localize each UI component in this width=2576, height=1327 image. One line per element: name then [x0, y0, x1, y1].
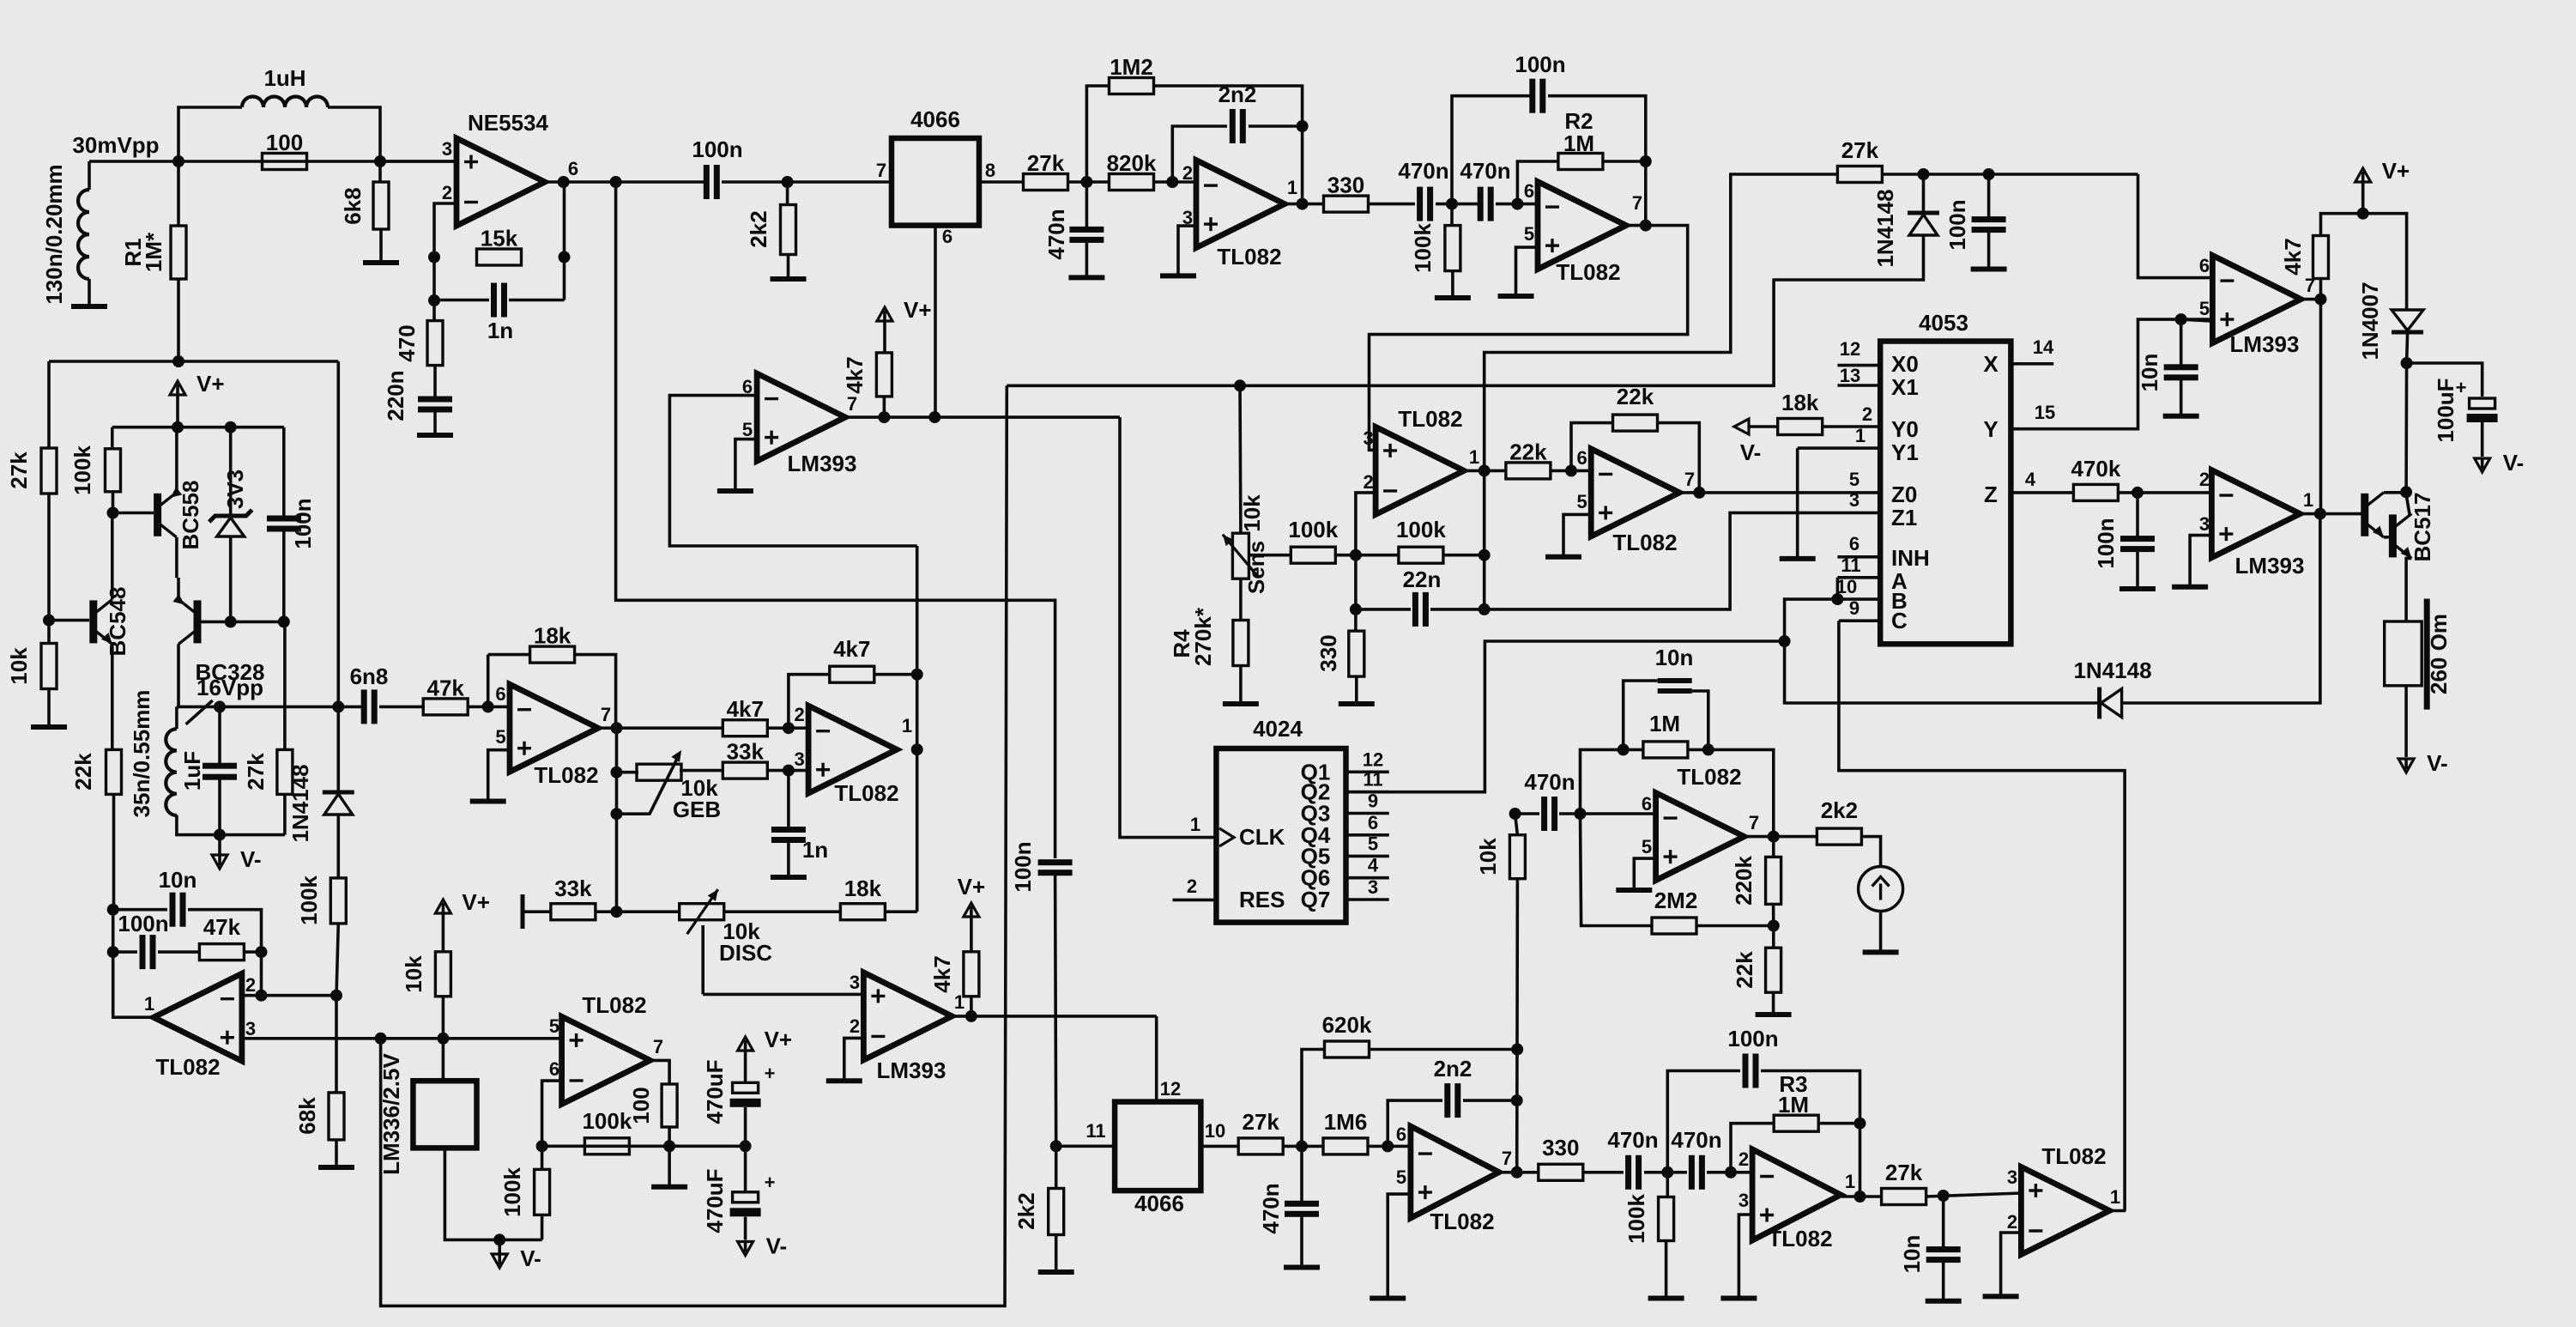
node 10n c	[1938, 1190, 1950, 1202]
wire 2k2 b2 bottom	[1055, 1234, 1058, 1270]
wire 4k7 lm1 bottom	[883, 397, 886, 417]
svg-text:1n: 1n	[487, 318, 513, 343]
svg-text:LM393: LM393	[2235, 553, 2305, 579]
svg-text:2n2: 2n2	[1218, 82, 1257, 107]
wire route bottom	[1055, 874, 1116, 1146]
svg-text:100n: 100n	[1944, 199, 1970, 250]
wire det mid down	[1354, 555, 1358, 632]
svg-text:TL082: TL082	[1612, 530, 1677, 555]
node tl2 out	[1640, 220, 1652, 232]
wire search coil top	[88, 161, 91, 190]
ground 220n	[417, 433, 453, 438]
svg-text:100n: 100n	[1727, 1026, 1778, 1051]
svg-text:470n: 470n	[1398, 158, 1448, 184]
svg-text:270k*: 270k*	[1190, 607, 1216, 666]
svg-text:220k: 220k	[1731, 856, 1757, 906]
wire tl2 out loop	[1370, 226, 1688, 451]
svg-text:+: +	[765, 1172, 776, 1193]
node 470 top	[428, 294, 440, 306]
wire tl7 plus	[1634, 858, 1655, 888]
svg-text:7: 7	[847, 393, 857, 415]
wire tl11 out	[1841, 1195, 1882, 1198]
power V- cap	[2475, 450, 2525, 476]
diode 1N4148 det	[1908, 213, 1939, 235]
wire bc517 c1	[2384, 491, 2406, 494]
wire lm1 plus	[735, 439, 757, 489]
wire tl4 out vert	[916, 546, 919, 912]
node 1M right	[1702, 743, 1714, 755]
wire 4k7 to tl4	[767, 726, 808, 730]
wire V+ to diode	[2363, 214, 2407, 309]
wire 100n osc bottom	[282, 529, 286, 621]
wire 100n osc top	[282, 427, 286, 518]
node mfb in	[1296, 1140, 1308, 1152]
svg-text:27k: 27k	[1027, 150, 1065, 176]
svg-text:27k: 27k	[6, 451, 32, 489]
node vref gnd	[493, 1233, 505, 1245]
node 620k join	[1511, 1044, 1523, 1056]
resistor 820k	[1107, 150, 1157, 191]
wire 100uF bottom	[2481, 422, 2484, 457]
svg-text:Z1: Z1	[1891, 505, 1917, 530]
svg-text:INH: INH	[1891, 545, 1930, 571]
resistor 18k fb	[530, 623, 575, 663]
wire tl9 inv	[542, 1081, 562, 1146]
wire 18k to fb	[885, 910, 917, 913]
wire 2n2b left	[1388, 1100, 1442, 1146]
svg-text:V+: V+	[904, 297, 932, 323]
svg-text:5: 5	[1396, 1166, 1406, 1188]
transistor BC548	[89, 587, 130, 657]
wire node to disc	[617, 910, 680, 913]
svg-text:22k: 22k	[1617, 384, 1654, 409]
ground tl12 inv	[1983, 1294, 2019, 1299]
svg-text:3: 3	[2007, 1166, 2017, 1188]
wire 2k2 to isrc	[1861, 837, 1880, 867]
node 220k bot	[1768, 920, 1780, 932]
svg-text:4066: 4066	[1134, 1191, 1184, 1216]
svg-text:5: 5	[1642, 836, 1652, 857]
svg-text:V-: V-	[2503, 450, 2525, 476]
svg-text:15: 15	[2035, 402, 2055, 423]
svg-text:10k: 10k	[1475, 838, 1501, 876]
node 4k7fb out	[911, 669, 923, 681]
svg-text:12: 12	[1840, 338, 1860, 360]
node tl3 inv	[482, 700, 494, 712]
wire 10n c bottom	[1942, 1259, 1945, 1300]
svg-text:3: 3	[442, 138, 452, 160]
wire det vert	[1483, 470, 1486, 609]
svg-text:470k: 470k	[2071, 456, 2120, 482]
capacitor 22n	[1412, 592, 1429, 627]
wire 18k fb right	[575, 655, 616, 729]
wire 27k tank top	[283, 621, 287, 749]
op-amp TL082 l	[2007, 1143, 2120, 1255]
wire BC558 collector	[175, 537, 178, 578]
wire 100k hp bottom	[1451, 271, 1454, 296]
wire BC558 emitter	[175, 427, 178, 493]
svg-text:7: 7	[1632, 192, 1642, 214]
wire tl9 out	[650, 1060, 669, 1084]
capacitor 470n v	[1285, 1201, 1319, 1217]
svg-text:2: 2	[1182, 162, 1193, 184]
svg-text:47k: 47k	[427, 675, 465, 700]
resistor 4k7 out	[2313, 236, 2329, 279]
wire 22n right	[1430, 608, 1485, 611]
ground tl11 plus	[1720, 1296, 1757, 1301]
resistor 18k y0	[1778, 390, 1823, 435]
svg-text:4k7: 4k7	[727, 696, 764, 722]
resistor 33k sig	[723, 739, 767, 779]
resistor 470	[427, 321, 443, 366]
node AB	[1831, 593, 1843, 605]
wire 22k fb right	[1658, 423, 1700, 493]
capacitor 6n8	[361, 689, 378, 724]
wire 22k b bottom	[1772, 992, 1775, 1013]
node lm1 4066	[928, 411, 940, 423]
svg-text:35n/0.55mm: 35n/0.55mm	[129, 690, 154, 818]
wire 2n2a left	[1172, 126, 1227, 182]
svg-text:1: 1	[144, 993, 154, 1015]
node tl11 out	[1854, 1191, 1866, 1203]
resistor 22k a	[1506, 439, 1551, 479]
wire 10n left	[1624, 681, 1658, 749]
wire 2k2 b2 top	[1055, 1146, 1058, 1188]
comparator LM393 b	[2199, 255, 2315, 357]
wire 100k hp top	[1450, 204, 1454, 226]
wire A to B	[1836, 578, 1840, 599]
wire diode to 100k	[336, 815, 340, 878]
svg-text:Y0: Y0	[1891, 416, 1919, 442]
wire 100k ref up	[541, 1215, 544, 1240]
wire rail to 100k	[111, 427, 114, 449]
pointer 16Vpp	[186, 700, 213, 724]
wire Q2 route	[1346, 641, 1785, 792]
svg-text:Q7: Q7	[1301, 887, 1331, 912]
svg-text:100k: 100k	[1410, 223, 1436, 273]
node vref a	[375, 1033, 387, 1045]
wire 68k bottom	[335, 1140, 338, 1166]
resistor 47k fb	[199, 914, 244, 960]
wire NE5534 output	[545, 180, 706, 184]
wire 470nb1 out	[1644, 1171, 1687, 1174]
node tank diode	[332, 700, 344, 712]
svg-text:5: 5	[1368, 833, 1378, 854]
svg-text:620k: 620k	[1322, 1012, 1372, 1038]
wire 470ns2 out	[1496, 203, 1538, 206]
wire 100n to 2k2	[722, 180, 892, 184]
capacitor 100n fb2	[140, 935, 156, 969]
svg-text:27k: 27k	[1885, 1160, 1923, 1185]
node tl9 inv	[536, 1140, 548, 1152]
svg-text:100n: 100n	[1515, 52, 1565, 77]
node tl7 inv	[1575, 808, 1587, 820]
wire 220k top	[1772, 837, 1775, 857]
wire 100k det down	[336, 924, 338, 997]
resistor 1M int	[1643, 742, 1688, 758]
resistor 27k c	[1238, 1109, 1283, 1154]
svg-text:15k: 15k	[481, 226, 518, 251]
wire 820k out	[1154, 180, 1196, 184]
svg-text:4: 4	[2025, 469, 2036, 490]
svg-text:Y1: Y1	[1891, 439, 1919, 465]
node NE5534 out branch	[610, 176, 622, 188]
ground lm2 inv	[826, 1078, 862, 1083]
ground R4	[1223, 701, 1259, 706]
wire diode top lead	[1922, 174, 1926, 211]
wire tl1 plus	[1178, 226, 1196, 274]
node tl4 nin	[783, 765, 795, 777]
capacitor 1n det	[771, 827, 806, 843]
svg-text:Z: Z	[1984, 482, 1998, 507]
ground 68k	[318, 1165, 354, 1170]
node tank bottom	[214, 829, 226, 841]
wire tl8 plus ext	[242, 1037, 562, 1040]
inductor L1 1uH	[242, 97, 328, 108]
svg-text:6: 6	[1368, 812, 1378, 833]
wire 100n b right	[1761, 1071, 1860, 1124]
svg-text:1: 1	[1855, 425, 1865, 446]
wire lm4 out	[2299, 512, 2361, 516]
wire tl5 out	[1464, 470, 1506, 473]
svg-text:6: 6	[942, 226, 952, 247]
svg-text:LM393: LM393	[877, 1057, 946, 1083]
node geb wiper top	[611, 767, 623, 779]
svg-text:8: 8	[985, 160, 995, 181]
ground 100n z	[2119, 586, 2156, 591]
wire tl8 inv	[242, 994, 336, 997]
ground 100k hp	[1435, 295, 1471, 300]
svg-text:1M6: 1M6	[1324, 1109, 1368, 1135]
capacitor 470n s1	[1417, 187, 1433, 221]
node tl4 inv	[783, 722, 795, 734]
svg-text:470n: 470n	[1524, 769, 1575, 795]
wire lm336 bottom	[444, 1148, 541, 1239]
resistor 10k osc	[41, 644, 57, 689]
node tl11 inv	[1725, 1166, 1737, 1179]
binary counter 4024	[1216, 716, 1345, 923]
wire osc top rail	[49, 360, 338, 363]
wire 22k down	[112, 794, 116, 910]
svg-text:6: 6	[1524, 180, 1534, 202]
resistor 100k hp	[1445, 226, 1460, 271]
op-amp TL082 e	[1363, 406, 1479, 514]
svg-text:10n: 10n	[1899, 1235, 1925, 1274]
ground tl10 plus	[1370, 1296, 1406, 1301]
svg-text:2: 2	[1363, 471, 1373, 493]
node lm1 4k7	[878, 411, 890, 423]
capacitor 2n2 a	[1230, 109, 1246, 143]
wire 2n2a right	[1249, 124, 1303, 128]
ground 470n flt	[1068, 275, 1104, 280]
svg-text:12: 12	[1160, 1078, 1181, 1100]
wire 1uF bottom	[218, 777, 221, 835]
node 100n det top	[1983, 168, 1995, 180]
capacitor 1n NE5534	[491, 283, 507, 318]
svg-text:11: 11	[1841, 554, 1860, 576]
svg-text:10k: 10k	[401, 955, 426, 993]
resistor 10k ref	[435, 952, 450, 997]
wire 100n det top lead	[1987, 174, 1991, 219]
svg-text:30mVpp: 30mVpp	[72, 132, 159, 158]
svg-text:10n: 10n	[1655, 645, 1694, 670]
node 470k out	[2132, 487, 2144, 499]
zener diode 3V3	[209, 510, 252, 536]
resistor 2k2 b	[1817, 797, 1861, 845]
power V- 470u	[738, 1233, 788, 1259]
wire tl8 out	[113, 906, 154, 1017]
node V+ out	[2357, 208, 2369, 220]
wire 1n left	[434, 299, 489, 302]
svg-text:470n: 470n	[1671, 1127, 1721, 1153]
node 10n b	[2175, 313, 2187, 325]
svg-text:47k: 47k	[203, 914, 241, 940]
svg-text:11: 11	[1363, 769, 1382, 791]
svg-text:RES: RES	[1239, 887, 1285, 912]
wire sens wiper out	[1249, 554, 1291, 557]
wire 1n4007 out	[2407, 334, 2408, 363]
svg-text:3: 3	[2199, 513, 2210, 535]
ground isrc	[1863, 949, 1899, 954]
wire 47k fb right	[244, 950, 261, 954]
wire coil top	[175, 706, 178, 729]
svg-text:1n: 1n	[802, 837, 828, 863]
pin 14 4053	[2011, 362, 2053, 366]
wire 100k h chain	[542, 1145, 746, 1148]
node diode top	[1918, 168, 1930, 180]
svg-text:100n: 100n	[692, 136, 742, 162]
svg-text:1N4148: 1N4148	[287, 764, 313, 842]
wire zener bottom	[229, 536, 233, 621]
ground 100	[651, 1185, 687, 1190]
wire 100k b bottom	[1665, 1241, 1668, 1297]
node NE5534 fb tap	[558, 176, 570, 188]
svg-text:TL082: TL082	[2041, 1143, 2106, 1169]
svg-text:1: 1	[1469, 446, 1479, 468]
wire 33k to node	[596, 910, 617, 913]
node vref b	[437, 1033, 449, 1045]
clock marker 4024	[1219, 828, 1234, 846]
resistor 10k int	[1509, 835, 1525, 879]
svg-text:33k: 33k	[554, 876, 592, 901]
op-amp TL082 i	[549, 992, 663, 1104]
svg-text:4066: 4066	[910, 106, 960, 132]
pin 6 4024	[1346, 833, 1389, 837]
wire 470k out	[2118, 491, 2211, 494]
wire 100n z top	[2136, 493, 2139, 537]
pin 3 4024	[1346, 898, 1389, 901]
svg-text:33k: 33k	[727, 739, 765, 765]
wire 470n flt top	[1085, 182, 1089, 228]
wire 27k c out	[1283, 1145, 1323, 1148]
capacitor 470n int	[1541, 797, 1557, 831]
svg-text:100k: 100k	[582, 1108, 632, 1134]
wire 68k top	[335, 996, 338, 1093]
svg-text:470uF: 470uF	[702, 1059, 728, 1124]
wire tl5 inv	[1356, 493, 1376, 555]
svg-text:V+: V+	[958, 874, 986, 900]
svg-text:6: 6	[495, 683, 505, 705]
svg-text:100uF: 100uF	[2433, 378, 2458, 442]
op-amp TL082 f	[1576, 447, 1695, 555]
svg-text:3: 3	[245, 1018, 256, 1039]
wire to lm393a inv	[2138, 174, 2213, 278]
svg-text:V+: V+	[197, 371, 225, 397]
pin 10 4053	[1837, 597, 1880, 601]
svg-text:1uH: 1uH	[263, 65, 305, 91]
svg-text:LM393: LM393	[2230, 331, 2300, 357]
wire tl6 out	[1679, 491, 1880, 494]
svg-text:100: 100	[266, 130, 303, 155]
capacitor 100n b	[1743, 1054, 1759, 1088]
svg-text:1N4148: 1N4148	[2073, 657, 2151, 683]
svg-text:100n: 100n	[118, 911, 168, 936]
wire C route	[1839, 621, 2125, 1210]
svg-text:Y: Y	[1983, 416, 1998, 442]
svg-text:Z0: Z0	[1891, 482, 1917, 507]
capacitor 470uF a	[702, 1059, 775, 1124]
capacitor 100n route	[1038, 859, 1073, 876]
svg-text:7: 7	[1684, 469, 1695, 490]
wire 4k7 top	[2321, 214, 2363, 236]
wire 470n flt bottom	[1085, 241, 1089, 276]
capacitor 220n	[418, 397, 452, 413]
wire coil bottom	[177, 815, 285, 835]
wire lm2 plus	[703, 993, 863, 997]
svg-text:1N4007: 1N4007	[2357, 282, 2383, 360]
ground 1n det	[771, 875, 807, 880]
svg-text:470n: 470n	[1607, 1127, 1658, 1153]
capacitor 470uF b	[702, 1168, 775, 1233]
resistor 100k det	[330, 878, 346, 924]
svg-text:6: 6	[1576, 447, 1587, 469]
ground 22k b	[1756, 1012, 1792, 1017]
resistor 100k s1	[1288, 517, 1338, 563]
wire sens top	[1238, 385, 1243, 533]
node lm2 out	[965, 1010, 977, 1022]
pin 9 4053	[1839, 619, 1880, 622]
capacitor 10n b	[2164, 364, 2198, 380]
wire 10n fb right	[188, 910, 262, 997]
svg-text:10: 10	[1205, 1120, 1225, 1142]
node geb wiper bot	[611, 808, 623, 820]
svg-text:7: 7	[876, 160, 886, 181]
svg-text:10n: 10n	[2137, 354, 2162, 392]
wire v- to 18k	[1749, 425, 1778, 428]
analog mux 4053	[1880, 310, 2011, 644]
ground 100k b	[1648, 1296, 1684, 1301]
svg-text:100k: 100k	[70, 445, 95, 495]
wire RES stub	[1173, 899, 1217, 902]
power V+ lm1	[877, 297, 932, 353]
svg-text:18k: 18k	[844, 876, 882, 901]
node bc517 c	[2400, 486, 2412, 498]
svg-text:10n: 10n	[159, 867, 197, 893]
resistor 18k disc	[840, 876, 885, 920]
svg-text:V-: V-	[2427, 750, 2448, 776]
svg-text:1uF: 1uF	[179, 751, 205, 791]
node tl7 out	[1768, 831, 1780, 843]
svg-text:6: 6	[2199, 255, 2210, 276]
op-amp NE5534	[442, 110, 578, 226]
resistor 27k tank	[277, 749, 293, 794]
wire 18k fb lead	[488, 653, 530, 657]
svg-text:3: 3	[1368, 876, 1378, 898]
wire 27k b out	[1926, 1193, 2022, 1197]
wire R3 down	[1859, 1124, 1862, 1197]
svg-text:470n: 470n	[1460, 158, 1510, 184]
op-amp TL082 a	[495, 683, 611, 788]
